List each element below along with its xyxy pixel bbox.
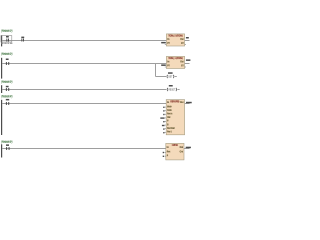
svg-text:Val: Val [167,117,171,119]
U3 pin Code stub [165,110,167,112]
svg-text:Out: Out [180,101,184,104]
U4 pin Res [167,151,171,153]
svg-text:GEN (FB): GEN (FB) [170,100,179,103]
svg-text:Par 1: Par 1 [167,131,172,134]
timer block U1 (TON) [166,34,184,46]
U2 PT value T#1s [161,64,166,66]
contact C1 label %IX0.0 [6,36,9,38]
U2 pin PT [167,65,169,67]
svg-text:(*Network 4*): (*Network 4*) [1,95,12,99]
U4 pin In [167,146,169,148]
wire N1 rung [2,40,166,42]
U4 out wire [184,148,190,150]
U3 pin B stub [165,124,167,126]
U3 Code value [163,110,164,111]
U3 pin Mode stub [165,106,167,108]
coil K1 left paren [166,75,169,78]
U3 title [170,100,179,102]
network 4 comment label [1,95,12,97]
contact C6 [5,147,8,150]
U1 ET stub wire [185,44,186,46]
U3 out label [186,102,192,104]
U2 pin ET [181,65,183,67]
svg-text:(*Network 5*): (*Network 5*) [1,140,12,144]
svg-text:Out: Out [180,60,184,63]
svg-text:Decimal: Decimal [167,128,175,130]
contact C5 label %M0 [6,99,9,101]
U3 pin ResIn [167,113,172,115]
function block U3 (generator) [166,100,184,135]
U2 pin Out [180,61,183,63]
coil K2 label [169,85,173,87]
svg-text:Out: Out [180,146,184,149]
U3 pin Decimal [167,127,175,129]
branch wire horizontal to coil [156,76,167,78]
U3 Val value 500 [160,117,164,118]
U1 pin PT [167,42,169,44]
U3 pin Par 1 [167,131,172,133]
selection box around contact C1 [1,36,12,42]
U4 pin P [167,155,168,157]
contact C3 label %T0 [6,59,9,61]
U3 out wire [185,103,190,105]
left power rail N1 [1,35,2,46]
U1 out wire [185,40,190,42]
U4 Res value [163,152,164,153]
left power rail N2 [1,58,2,79]
coil K1 right paren [172,75,175,78]
U3 ResIn value [163,114,164,115]
svg-text:CTU: CTU [172,144,179,147]
svg-text:Out: Out [180,38,184,41]
svg-text:SET: SET [168,77,173,79]
U3 pin P [167,120,168,122]
U4 pin Out [180,146,183,148]
contact C2 [20,39,23,42]
U1 pin ET [181,42,183,44]
contact C4 label %T1 [6,86,9,88]
U4 P value 5 [163,156,164,157]
U3 Decimal value [163,128,164,129]
svg-text:(*Network 1*): (*Network 1*) [1,29,12,33]
svg-text:RESET: RESET [169,90,176,92]
U3 pin Val [167,116,170,118]
network 1 comment label [1,30,12,32]
U3 pin B [167,124,168,126]
U2 ET stub wire [185,66,186,68]
U3 pin In [167,102,169,104]
U2 title [169,57,175,59]
U3 Par1 value [163,132,164,133]
svg-text:(*Network 3*): (*Network 3*) [1,80,12,84]
U3 P value [163,121,164,122]
wire N3 rung [2,89,166,91]
U1 pin Out [180,38,183,40]
U3 B value 10 [162,125,165,126]
U2 pin In [167,61,169,63]
svg-text:TON_0 (TON): TON_0 (TON) [168,35,183,38]
wire N4 rung [2,103,166,105]
svg-text:TON_1 (TON): TON_1 (TON) [168,57,183,60]
contact C4 [5,88,8,91]
U1 title [169,35,175,37]
network 2 comment label [1,53,12,55]
U3 pin Mode [167,106,172,108]
contact C6 label %M1 [6,144,9,146]
U3 pin Out [180,102,183,104]
U3 pin Val stub [165,117,167,119]
U1 PT stub wire [165,44,167,46]
svg-text:Code: Code [167,110,172,112]
svg-text:(*Network 2*): (*Network 2*) [1,52,12,56]
U3 Mode value [163,107,164,108]
U3 pin ResIn stub [165,113,167,115]
U2 PT stub wire [165,66,167,68]
network 5 comment label [1,141,12,143]
coil K2 right paren [175,88,178,91]
svg-text:Res In: Res In [167,114,173,116]
coil K1 exit dash [175,76,177,78]
U1 out label [186,37,189,39]
U3 pin Decimal stub [165,128,167,130]
counter block U4 (CTU) [166,143,184,160]
U2 out wire [185,63,190,65]
U4 P stub [164,155,166,157]
U3 pin P stub [165,121,167,123]
contact C2 label %T1 [21,37,24,39]
left power rail N3 [1,85,2,93]
svg-text:Cnt: Cnt [180,150,184,153]
coil K1 label [168,72,173,74]
branch wire vertical [155,64,157,77]
left power rail N4 [1,100,2,135]
U3 pin Par1 stub [165,131,167,133]
U4 title [173,144,178,146]
U4 out label [186,147,191,149]
U1 PT value T#5s [161,42,166,44]
comment text under box [1,43,12,44]
left power rail N5 [1,144,2,157]
coil K2 exit dash [177,89,179,91]
U4 pin Cnt [180,151,183,153]
svg-text:Mode: Mode [167,106,172,108]
contact C1 [5,39,8,42]
U4 Res stub [164,152,166,154]
wire N2 rung [2,63,166,65]
U2 out label [186,59,191,61]
timer block U2 (TON) [166,56,184,68]
U1 pin In [167,38,169,40]
network 3 comment label [1,81,12,83]
U3 pin Code [167,109,172,111]
contact C5 [5,102,8,105]
wire N5 rung [2,148,166,150]
contact C3 [5,62,8,65]
coil K2 left paren [166,88,169,91]
